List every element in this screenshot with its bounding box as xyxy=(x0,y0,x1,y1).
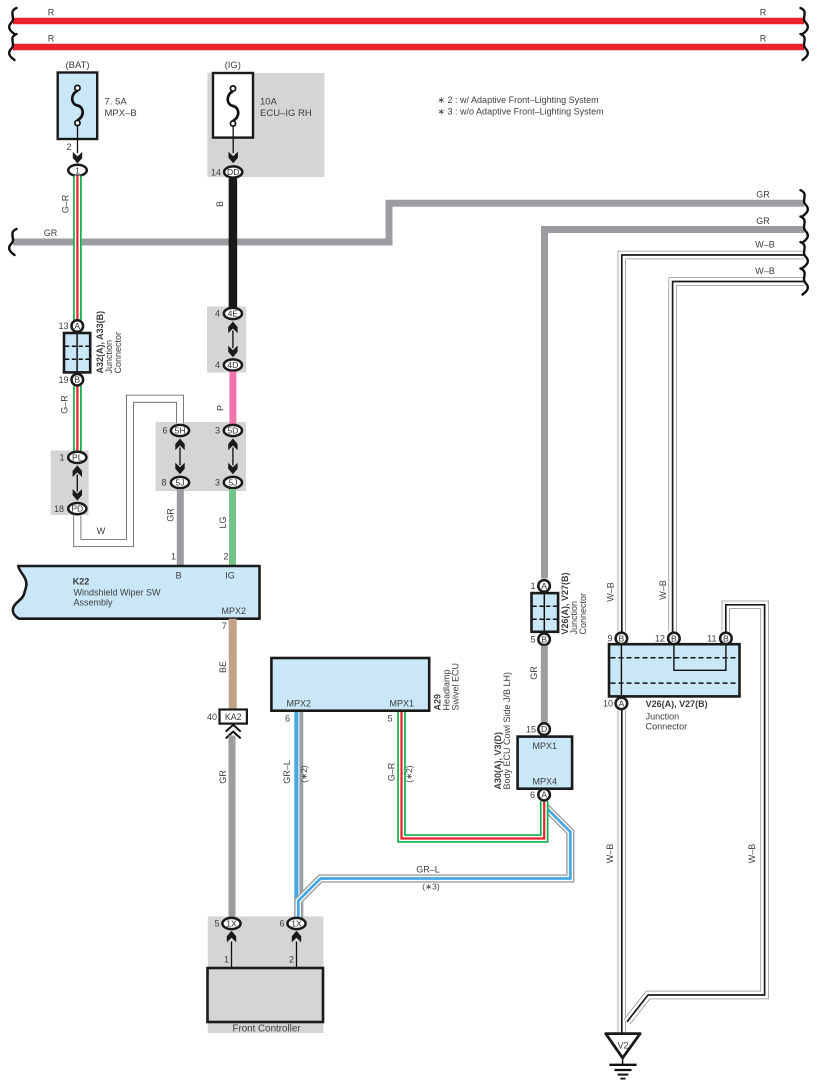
svg-text:(BAT): (BAT) xyxy=(65,60,89,71)
svg-text:2: 2 xyxy=(223,552,228,562)
svg-text:4D: 4D xyxy=(227,360,238,370)
svg-text:7. 5A: 7. 5A xyxy=(105,96,128,107)
svg-text:GR: GR xyxy=(218,770,228,784)
svg-text:13: 13 xyxy=(58,321,68,331)
svg-text:V26(A), V27(B): V26(A), V27(B) xyxy=(646,699,708,709)
svg-text:4E: 4E xyxy=(228,309,239,319)
svg-text:MPX1: MPX1 xyxy=(390,699,415,709)
svg-text:W–B: W–B xyxy=(747,844,757,864)
svg-text:6: 6 xyxy=(285,714,290,724)
svg-text:R: R xyxy=(760,34,767,44)
svg-text:5: 5 xyxy=(387,714,392,724)
svg-text:5: 5 xyxy=(214,919,219,929)
svg-text:MPX4: MPX4 xyxy=(533,777,558,787)
svg-text:2: 2 xyxy=(66,142,71,152)
svg-text:A: A xyxy=(541,581,547,591)
svg-text:4: 4 xyxy=(215,360,220,370)
svg-text:A: A xyxy=(74,321,80,331)
svg-text:1X: 1X xyxy=(291,919,302,929)
svg-text:B: B xyxy=(723,633,729,643)
svg-text:P: P xyxy=(216,405,226,411)
svg-text:D: D xyxy=(541,724,547,734)
svg-text:GR: GR xyxy=(756,190,770,200)
svg-text:5: 5 xyxy=(530,635,535,645)
svg-text:LG: LG xyxy=(218,516,228,528)
svg-text:Junction: Junction xyxy=(646,712,680,722)
svg-text:G–R: G–R xyxy=(60,395,70,414)
svg-text:PD: PD xyxy=(71,504,83,514)
svg-text:1: 1 xyxy=(171,552,176,562)
svg-text:3: 3 xyxy=(215,478,220,488)
svg-text:5D: 5D xyxy=(227,426,238,436)
svg-text:40: 40 xyxy=(207,712,217,722)
svg-text:B: B xyxy=(74,375,80,385)
svg-text:GR: GR xyxy=(166,508,176,522)
svg-text:7: 7 xyxy=(222,621,227,631)
svg-text:R: R xyxy=(48,8,55,18)
svg-text:B: B xyxy=(541,634,547,644)
svg-text:KA2: KA2 xyxy=(225,712,242,722)
svg-text:Body ECU Cowl Side J/B LH): Body ECU Cowl Side J/B LH) xyxy=(502,672,512,790)
svg-text:14: 14 xyxy=(211,168,221,178)
svg-text:1: 1 xyxy=(530,581,535,591)
svg-text:GR: GR xyxy=(529,666,539,680)
svg-text:GR–L: GR–L xyxy=(282,760,292,784)
svg-text:A: A xyxy=(541,790,547,800)
svg-text:W–B: W–B xyxy=(755,240,775,250)
svg-text:∗ 3 : w/o Adaptive Front–Light: ∗ 3 : w/o Adaptive Front–Lighting System xyxy=(438,107,604,117)
svg-text:(IG): (IG) xyxy=(225,60,241,71)
svg-text:Connector: Connector xyxy=(646,722,688,732)
svg-text:18: 18 xyxy=(54,504,64,514)
svg-text:MPX1: MPX1 xyxy=(533,741,558,751)
svg-text:Windshield Wiper SW: Windshield Wiper SW xyxy=(74,588,162,598)
svg-text:1: 1 xyxy=(59,453,64,463)
svg-text:IG: IG xyxy=(225,571,235,581)
svg-text:(∗3): (∗3) xyxy=(422,882,440,892)
svg-text:(∗2): (∗2) xyxy=(299,765,309,783)
svg-text:MPX2: MPX2 xyxy=(287,699,312,709)
svg-text:Connector: Connector xyxy=(113,332,123,374)
svg-text:2: 2 xyxy=(289,955,294,965)
svg-text:Assembly: Assembly xyxy=(74,598,114,608)
svg-text:6: 6 xyxy=(279,919,284,929)
svg-text:Connector: Connector xyxy=(578,593,588,635)
svg-text:GR: GR xyxy=(44,228,58,238)
svg-text:Front Controller: Front Controller xyxy=(232,1024,301,1035)
svg-text:Swivel ECU: Swivel ECU xyxy=(451,663,461,711)
svg-text:MPX2: MPX2 xyxy=(222,606,247,616)
svg-text:W–B: W–B xyxy=(658,580,668,600)
svg-text:B: B xyxy=(619,633,625,643)
svg-text:1: 1 xyxy=(224,955,229,965)
svg-text:R: R xyxy=(48,34,55,44)
svg-text:10: 10 xyxy=(603,699,613,709)
svg-text:A: A xyxy=(619,698,625,708)
svg-text:B: B xyxy=(176,571,182,581)
svg-text:W: W xyxy=(97,526,106,536)
svg-text:DD: DD xyxy=(227,167,239,177)
svg-text:K22: K22 xyxy=(73,577,90,587)
svg-text:B: B xyxy=(215,201,225,207)
svg-text:19: 19 xyxy=(58,375,68,385)
svg-text:G–R: G–R xyxy=(61,194,71,213)
svg-text:PL: PL xyxy=(72,453,83,463)
svg-text:GR: GR xyxy=(756,216,770,226)
svg-text:1: 1 xyxy=(75,165,80,175)
svg-text:12: 12 xyxy=(655,634,665,644)
svg-text:R: R xyxy=(760,8,767,18)
svg-text:4: 4 xyxy=(215,309,220,319)
svg-text:9: 9 xyxy=(607,634,612,644)
svg-text:(∗2): (∗2) xyxy=(404,765,414,783)
svg-text:10A: 10A xyxy=(260,96,278,107)
svg-text:V2: V2 xyxy=(617,1041,628,1051)
svg-text:1X: 1X xyxy=(226,919,237,929)
svg-text:∗ 2 : w/ Adaptive Front–Lighti: ∗ 2 : w/ Adaptive Front–Lighting System xyxy=(438,95,599,105)
svg-text:3: 3 xyxy=(215,426,220,436)
svg-text:8: 8 xyxy=(161,478,166,488)
svg-text:BE: BE xyxy=(218,661,228,673)
svg-text:B: B xyxy=(671,633,677,643)
svg-text:5J: 5J xyxy=(228,478,237,488)
svg-text:MPX–B: MPX–B xyxy=(105,108,137,119)
svg-text:G–R: G–R xyxy=(387,762,397,781)
svg-text:5J: 5J xyxy=(175,478,184,488)
svg-text:GR–L: GR–L xyxy=(416,865,440,875)
svg-text:W–B: W–B xyxy=(605,844,615,864)
svg-text:5H: 5H xyxy=(175,426,186,436)
svg-text:11: 11 xyxy=(707,634,716,644)
svg-text:W–B: W–B xyxy=(606,582,616,602)
svg-text:6: 6 xyxy=(530,790,535,800)
svg-text:W–B: W–B xyxy=(755,266,775,276)
svg-text:15: 15 xyxy=(526,724,536,734)
svg-text:ECU–IG RH: ECU–IG RH xyxy=(260,108,312,119)
svg-text:6: 6 xyxy=(162,426,167,436)
